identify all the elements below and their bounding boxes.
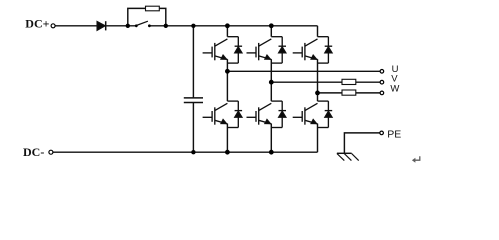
svg-text:W: W xyxy=(390,83,399,94)
svg-text:DC-: DC- xyxy=(23,145,44,159)
svg-text:PE: PE xyxy=(387,129,401,141)
svg-text:DC+: DC+ xyxy=(25,17,49,31)
